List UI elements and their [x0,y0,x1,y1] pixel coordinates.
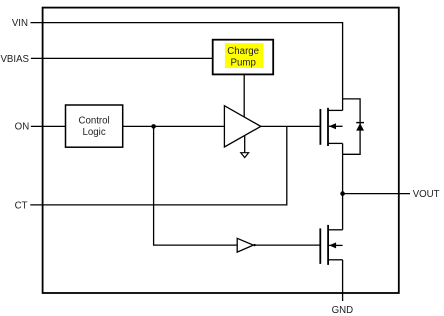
svg-text:VBIAS: VBIAS [0,54,29,65]
buffer U2 (discharge driver) [237,238,253,252]
pin CT label [15,200,28,211]
wire ON: pin to control logic [31,125,66,127]
svg-text:Control: Control [78,115,109,126]
svg-text:Charge: Charge [227,46,259,57]
pin VBIAS label [0,54,29,65]
wire Q1 source to VOUT node [342,143,344,193]
svg-text:VOUT: VOUT [413,189,440,200]
wire node A to lower buffer [154,126,238,245]
IC boundary box [43,8,399,293]
transistor Q2 (discharge NMOS) [320,225,342,265]
svg-text:Logic: Logic [83,127,106,138]
svg-text:Pump: Pump [231,57,256,68]
wire CT: pin to gate-drive net [30,126,287,204]
pin VOUT label [413,189,440,200]
op-amp gate driver U1 [224,106,260,147]
node at buffer output [253,244,255,246]
pin GND label [332,305,354,316]
wire VOUT node to Q2 drain [342,194,344,230]
wire charge pump to driver [243,74,245,117]
diode D1 (Q1 body diode) [343,99,364,154]
block Charge Pump (highlighted) [213,40,274,75]
pin VIN label [12,18,28,29]
svg-text:CT: CT [15,200,28,211]
wire buffer to Q2 gate [253,244,320,246]
svg-text:VIN: VIN [12,18,28,29]
node VOUT junction [340,191,345,196]
pin ON label [15,122,30,133]
wire control logic output [123,125,225,127]
wire driver to Q1 gate [261,125,321,127]
svg-text:GND: GND [332,305,354,316]
svg-text:ON: ON [15,122,30,133]
wire VBIAS: pin to charge pump [31,57,213,59]
block Control Logic [66,105,123,147]
wire VOUT: node to pin [343,193,410,195]
wire VIN: pin to Q1 drain [31,23,343,111]
wire Q2 source to GND pin [342,260,344,301]
ground arrow under driver [241,136,249,158]
node junction A (ON net split) [151,124,156,129]
transistor Q1 (high-side NMOS) [320,108,342,146]
